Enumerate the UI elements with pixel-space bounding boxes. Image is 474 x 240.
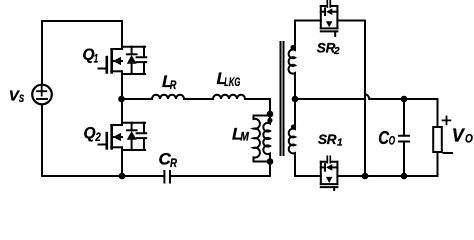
label SR1 bbox=[318, 132, 343, 148]
voltage source VS bbox=[32, 85, 52, 105]
node junction primary bottom bbox=[267, 158, 274, 165]
label LR bbox=[162, 72, 177, 92]
svg-text:S: S bbox=[317, 40, 326, 55]
svg-text:2: 2 bbox=[95, 130, 101, 144]
wire bottom rail to CO bbox=[365, 175, 404, 177]
polarity dot secondary upper bbox=[290, 45, 295, 50]
transformer secondary lower winding bbox=[289, 99, 295, 176]
wire secondary top to SR2 bbox=[295, 20, 321, 22]
wire right rail down bbox=[364, 21, 366, 177]
inductor LM bbox=[254, 119, 260, 158]
wire hop over right rail bbox=[365, 94, 369, 99]
svg-text:LKG: LKG bbox=[224, 75, 240, 89]
polarity dot secondary lower bbox=[291, 124, 296, 129]
wire SR2 to right rail bbox=[337, 20, 365, 22]
svg-text:Q: Q bbox=[84, 125, 96, 142]
capacitor CR bbox=[164, 171, 170, 183]
wire Vs bottom to bottom-left rail bbox=[42, 105, 163, 177]
wire top-left rail from Vs to Q1 drain bbox=[42, 21, 122, 85]
wire center tap to output with hop bbox=[295, 98, 365, 100]
svg-text:M: M bbox=[240, 130, 249, 144]
node junction Q2 source at bottom rail bbox=[119, 173, 126, 180]
label LLKG bbox=[217, 69, 241, 89]
wire load to bottom rail bbox=[404, 152, 438, 176]
label CR bbox=[159, 150, 178, 171]
node A junction Q1-Q2 midpoint bbox=[118, 96, 125, 103]
plus sign output bbox=[443, 117, 451, 125]
inductor LR bbox=[152, 95, 184, 99]
svg-text:V: V bbox=[452, 125, 466, 145]
label VO bbox=[452, 125, 474, 145]
wire secondary bottom to SR1 bbox=[295, 175, 321, 177]
node junction right rail bottom bbox=[362, 173, 369, 180]
wire CO bottom lead bbox=[403, 142, 405, 177]
svg-text:2: 2 bbox=[333, 46, 340, 57]
capacitor CO bbox=[399, 136, 409, 142]
polarity dot primary bbox=[267, 118, 272, 123]
transformer secondary upper winding bbox=[289, 21, 295, 100]
wire CR to primary bottom bbox=[171, 162, 270, 177]
wire mid node to LR bbox=[122, 98, 152, 100]
wire CO top lead bbox=[403, 99, 405, 135]
svg-text:S: S bbox=[318, 132, 327, 147]
node junction primary top bbox=[267, 111, 274, 118]
svg-text:S: S bbox=[19, 93, 25, 105]
label Q1 bbox=[83, 47, 99, 66]
svg-text:O: O bbox=[389, 134, 396, 148]
mosfet Q1 bbox=[99, 21, 147, 99]
svg-text:R: R bbox=[170, 156, 177, 170]
wire SR1 to right rail bottom bbox=[337, 175, 365, 177]
inductor LLKG bbox=[213, 95, 245, 99]
svg-text:1: 1 bbox=[337, 137, 343, 148]
label LM bbox=[232, 124, 250, 143]
wire LR to LLKG bbox=[184, 98, 213, 100]
node junction CO bottom bbox=[401, 173, 408, 180]
label SR2 bbox=[317, 40, 340, 57]
mosfet Q2 bbox=[99, 99, 147, 176]
wire LM top branch bbox=[254, 116, 271, 120]
load resistor VO box bbox=[433, 127, 442, 152]
wire LLKG to primary top node bbox=[245, 99, 270, 114]
label Q2 bbox=[84, 125, 102, 144]
transformer primary winding bbox=[263, 114, 270, 162]
svg-text:1: 1 bbox=[94, 52, 99, 66]
node junction center tap bbox=[292, 96, 299, 103]
svg-text:O: O bbox=[465, 131, 473, 145]
svg-text:R: R bbox=[327, 132, 337, 147]
svg-text:R: R bbox=[170, 78, 177, 92]
minus sign output bbox=[444, 152, 453, 154]
node junction CO top bbox=[401, 96, 408, 103]
label VS bbox=[9, 88, 25, 105]
label CO bbox=[378, 128, 395, 148]
mosfet SR2 bbox=[321, 1, 338, 36]
transformer core bbox=[281, 42, 284, 155]
wire LM bottom branch bbox=[254, 157, 271, 161]
mosfet SR1 bbox=[321, 156, 338, 190]
wire output top to load bbox=[437, 99, 439, 127]
